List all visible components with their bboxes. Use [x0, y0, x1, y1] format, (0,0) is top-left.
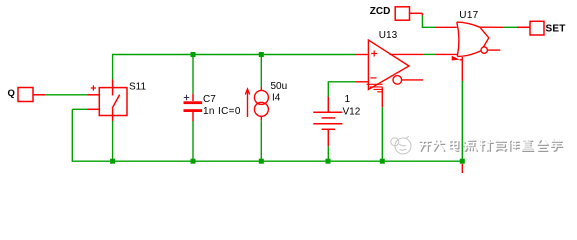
junction top rail I4	[259, 52, 264, 57]
junction top rail C7	[191, 52, 196, 57]
wire stub below rail right end	[461, 164, 463, 173]
wire S11 bottom to rail	[112, 121, 114, 161]
wire I4 bottom	[260, 120, 262, 161]
junction bottom rail C7	[191, 159, 196, 164]
junction bottom rail I4	[259, 159, 264, 164]
svg-text:U13: U13	[379, 30, 398, 41]
C7 plus mark	[184, 95, 189, 100]
port Q	[18, 88, 45, 102]
wire U13 ground pin to rail	[381, 107, 383, 161]
wire V12 bottom	[327, 146, 329, 161]
svg-text:U17: U17	[459, 10, 478, 21]
svg-text:1: 1	[345, 94, 351, 105]
wire C7 bottom	[192, 121, 194, 161]
op-amp U13	[367, 40, 458, 107]
wire top rail	[113, 55, 356, 81]
wire bottom rail	[72, 109, 462, 161]
svg-text:C7: C7	[203, 94, 216, 105]
capacitor C7	[184, 94, 203, 121]
svg-text:V12: V12	[343, 106, 361, 117]
junction bottom rail S11	[110, 159, 115, 164]
port ZCD	[395, 7, 422, 20]
junction bottom rail V12	[326, 159, 331, 164]
svg-text:SET: SET	[546, 24, 566, 35]
wire V12 top to U13 minus input	[328, 82, 356, 97]
op-amp U13 input stubs	[356, 55, 368, 82]
svg-text:Q: Q	[8, 88, 15, 99]
svg-text:1n IC=0: 1n IC=0	[203, 106, 241, 117]
wire ZCD to U17 input	[422, 16, 435, 28]
wire C7 top	[192, 55, 194, 94]
wire U17 output green segment	[503, 26, 517, 28]
port SET	[517, 21, 544, 35]
svg-text:I4: I4	[272, 93, 281, 104]
watermark text 开关电源计算仿真分享 (simulated glyph strokes)	[419, 139, 563, 151]
gate U17	[435, 22, 530, 56]
wire I4 top	[260, 55, 262, 88]
junction bottom rail U13 pin	[380, 159, 385, 164]
watermark logo	[391, 136, 411, 154]
svg-text:ZCD: ZCD	[370, 6, 391, 17]
battery V12	[313, 97, 342, 147]
current source I4	[245, 87, 268, 120]
svg-text:50u: 50u	[271, 81, 288, 92]
U17 AD interface marker	[452, 56, 460, 61]
wire U13 out to U17 input green segment	[423, 53, 436, 55]
svg-text:S11: S11	[129, 82, 146, 93]
wire S11 feedback loop	[72, 108, 87, 110]
wire U17 lower node to rail	[461, 81, 463, 161]
switch S11	[88, 80, 128, 121]
U17 lower node link	[460, 59, 463, 61]
wire Q to S11	[45, 94, 88, 96]
junction bottom rail right end	[460, 159, 465, 164]
